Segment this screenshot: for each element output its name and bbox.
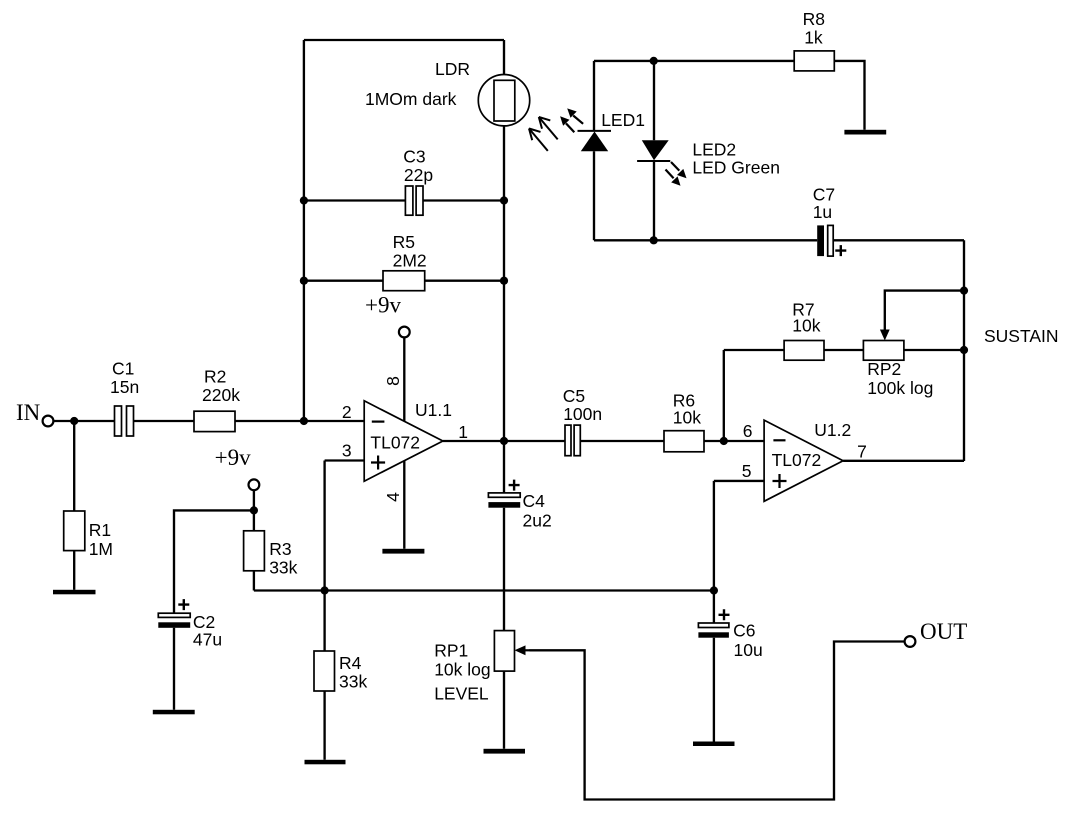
svg-text:R4: R4 <box>339 653 362 673</box>
svg-text:RP2: RP2 <box>867 359 901 379</box>
svg-text:1M: 1M <box>89 539 113 559</box>
svg-text:2M2: 2M2 <box>393 251 427 271</box>
svg-text:1k: 1k <box>804 28 823 48</box>
svg-text:10k: 10k <box>792 316 820 336</box>
svg-text:R8: R8 <box>803 9 825 29</box>
svg-text:33k: 33k <box>339 672 367 692</box>
svg-text:2u2: 2u2 <box>523 510 552 530</box>
svg-text:220k: 220k <box>202 385 240 405</box>
svg-text:OUT: OUT <box>920 619 967 644</box>
svg-text:TL072: TL072 <box>370 433 420 453</box>
svg-text:+9v: +9v <box>365 292 401 317</box>
svg-text:22p: 22p <box>404 165 433 185</box>
svg-text:7: 7 <box>857 442 867 462</box>
svg-text:10k log: 10k log <box>434 660 490 680</box>
svg-text:100k log: 100k log <box>867 378 933 398</box>
svg-text:C5: C5 <box>563 386 585 406</box>
svg-text:10k: 10k <box>673 408 701 428</box>
svg-text:1MOm dark: 1MOm dark <box>365 89 457 109</box>
svg-text:C6: C6 <box>733 621 755 641</box>
svg-text:1u: 1u <box>813 202 832 222</box>
svg-text:33k: 33k <box>269 557 297 577</box>
svg-text:15n: 15n <box>110 377 139 397</box>
svg-text:2: 2 <box>342 402 352 422</box>
svg-text:100n: 100n <box>563 404 602 424</box>
svg-text:R1: R1 <box>89 520 111 540</box>
svg-text:10u: 10u <box>734 640 763 660</box>
svg-text:47u: 47u <box>193 630 222 650</box>
svg-text:3: 3 <box>342 441 352 461</box>
svg-text:6: 6 <box>743 421 753 441</box>
svg-text:R3: R3 <box>269 539 291 559</box>
svg-text:1: 1 <box>458 422 468 442</box>
svg-text:IN: IN <box>16 400 41 425</box>
svg-text:U1.2: U1.2 <box>814 420 851 440</box>
svg-text:LDR: LDR <box>435 59 470 79</box>
svg-text:C1: C1 <box>112 359 134 379</box>
svg-text:LED Green: LED Green <box>692 157 780 177</box>
svg-text:TL072: TL072 <box>772 450 822 470</box>
svg-text:LED1: LED1 <box>601 110 645 130</box>
svg-text:LEVEL: LEVEL <box>434 684 489 704</box>
svg-text:U1.1: U1.1 <box>415 400 452 420</box>
svg-text:RP1: RP1 <box>434 641 468 661</box>
svg-text:+9v: +9v <box>215 445 251 470</box>
svg-text:SUSTAIN: SUSTAIN <box>984 326 1059 346</box>
svg-text:4: 4 <box>383 492 403 502</box>
svg-text:R2: R2 <box>204 366 226 386</box>
svg-text:5: 5 <box>742 461 752 481</box>
svg-text:8: 8 <box>383 376 403 386</box>
svg-text:R5: R5 <box>393 232 415 252</box>
svg-text:LED2: LED2 <box>692 139 736 159</box>
svg-text:C4: C4 <box>523 491 546 511</box>
svg-text:C3: C3 <box>403 146 425 166</box>
